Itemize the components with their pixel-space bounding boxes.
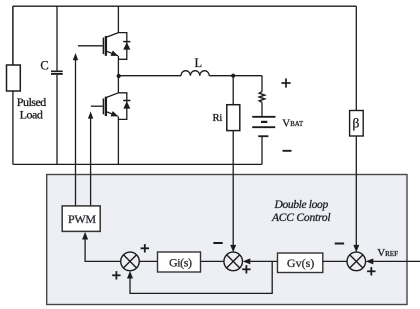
svg-text:Gi(s): Gi(s) [169, 256, 192, 270]
svg-text:Load: Load [20, 107, 43, 121]
block PWM [62, 206, 100, 232]
wire S3 output to Gv(s) [323, 260, 347, 262]
wire gate drive arrow to Q1 [73, 53, 78, 206]
capacitor C wires [56, 6, 58, 164]
svg-text:β: β [352, 116, 359, 131]
plus sign S2 right input [242, 265, 250, 273]
minus sign battery negative [283, 150, 292, 152]
transistor Q2 (lower IGBT) [91, 93, 119, 165]
svg-text:Double loop: Double loop [274, 199, 329, 211]
battery V_BAT plates [252, 117, 275, 136]
wire Gi(s) to S2 [201, 260, 224, 262]
minus sign S2 top input [213, 242, 222, 244]
summing junction S2 [224, 252, 243, 271]
capacitor C plates [51, 71, 63, 74]
diode D2 (antiparallel with Q2) [118, 93, 130, 120]
wire S1 output to PWM [82, 232, 121, 262]
wire gate drive arrow to Q2 [88, 111, 93, 205]
wire midpoint to inductor [119, 75, 181, 77]
minus sign S3 top input [335, 243, 344, 245]
label "Pulsed Load" [17, 95, 47, 121]
svg-text:VBAT: VBAT [282, 117, 304, 129]
wire left rail [12, 6, 14, 164]
plus sign S3 right input [367, 267, 375, 275]
wire output node to Ri [232, 76, 234, 105]
svg-text:ACC Control: ACC Control [271, 212, 330, 224]
resistor Pulsed Load [7, 6, 21, 91]
svg-text:C: C [40, 59, 48, 73]
svg-text:PWM: PWM [68, 212, 96, 226]
label Double loop ACC Control [271, 199, 330, 224]
wire V_REF input to S3 with arrow [366, 258, 420, 264]
wire Gv output feedback to S1 lower input [127, 261, 272, 293]
block Gi(s) [158, 252, 201, 272]
inductor L [181, 71, 209, 76]
block Gv(s) [278, 253, 323, 273]
transistor Q1 (upper IGBT) [78, 33, 118, 75]
plus sign S1 upper input [141, 244, 149, 252]
wire Q2 collector from midpoint [117, 76, 119, 93]
diode D1 (antiparallel with Q1) [118, 33, 130, 60]
node midpoint junction dot [117, 74, 121, 78]
summing junction S1 [121, 252, 140, 271]
wire S1 to Gi(s) [139, 260, 157, 262]
wire inductor to battery branch [209, 75, 262, 77]
svg-text:L: L [194, 56, 202, 70]
plus sign S1 lower input [112, 271, 120, 279]
plus sign battery positive [281, 78, 290, 87]
wire bottom rail [13, 163, 262, 165]
svg-text:Gv(s): Gv(s) [287, 256, 314, 270]
wire voltage sense beta to summing junction S3 [353, 136, 359, 252]
block beta (voltage sense) [350, 111, 364, 137]
summing junction S3 [347, 252, 366, 271]
control block background box "Double loop ACC Control" [47, 175, 407, 305]
wire top rail to beta block [355, 6, 357, 110]
wire Gv(s) output to S2 with arrow [243, 258, 278, 264]
wire Q1 collector to top rail [117, 6, 119, 32]
wire battery negative to bottom rail [261, 136, 263, 164]
wire current sense Ri to summing junction S2 [230, 131, 236, 253]
resistor internal (zigzag) of battery branch [259, 76, 265, 116]
node output junction dot [231, 74, 235, 78]
resistor Ri [227, 105, 240, 131]
svg-text:Ri: Ri [212, 112, 222, 124]
wire top rail [13, 5, 356, 7]
